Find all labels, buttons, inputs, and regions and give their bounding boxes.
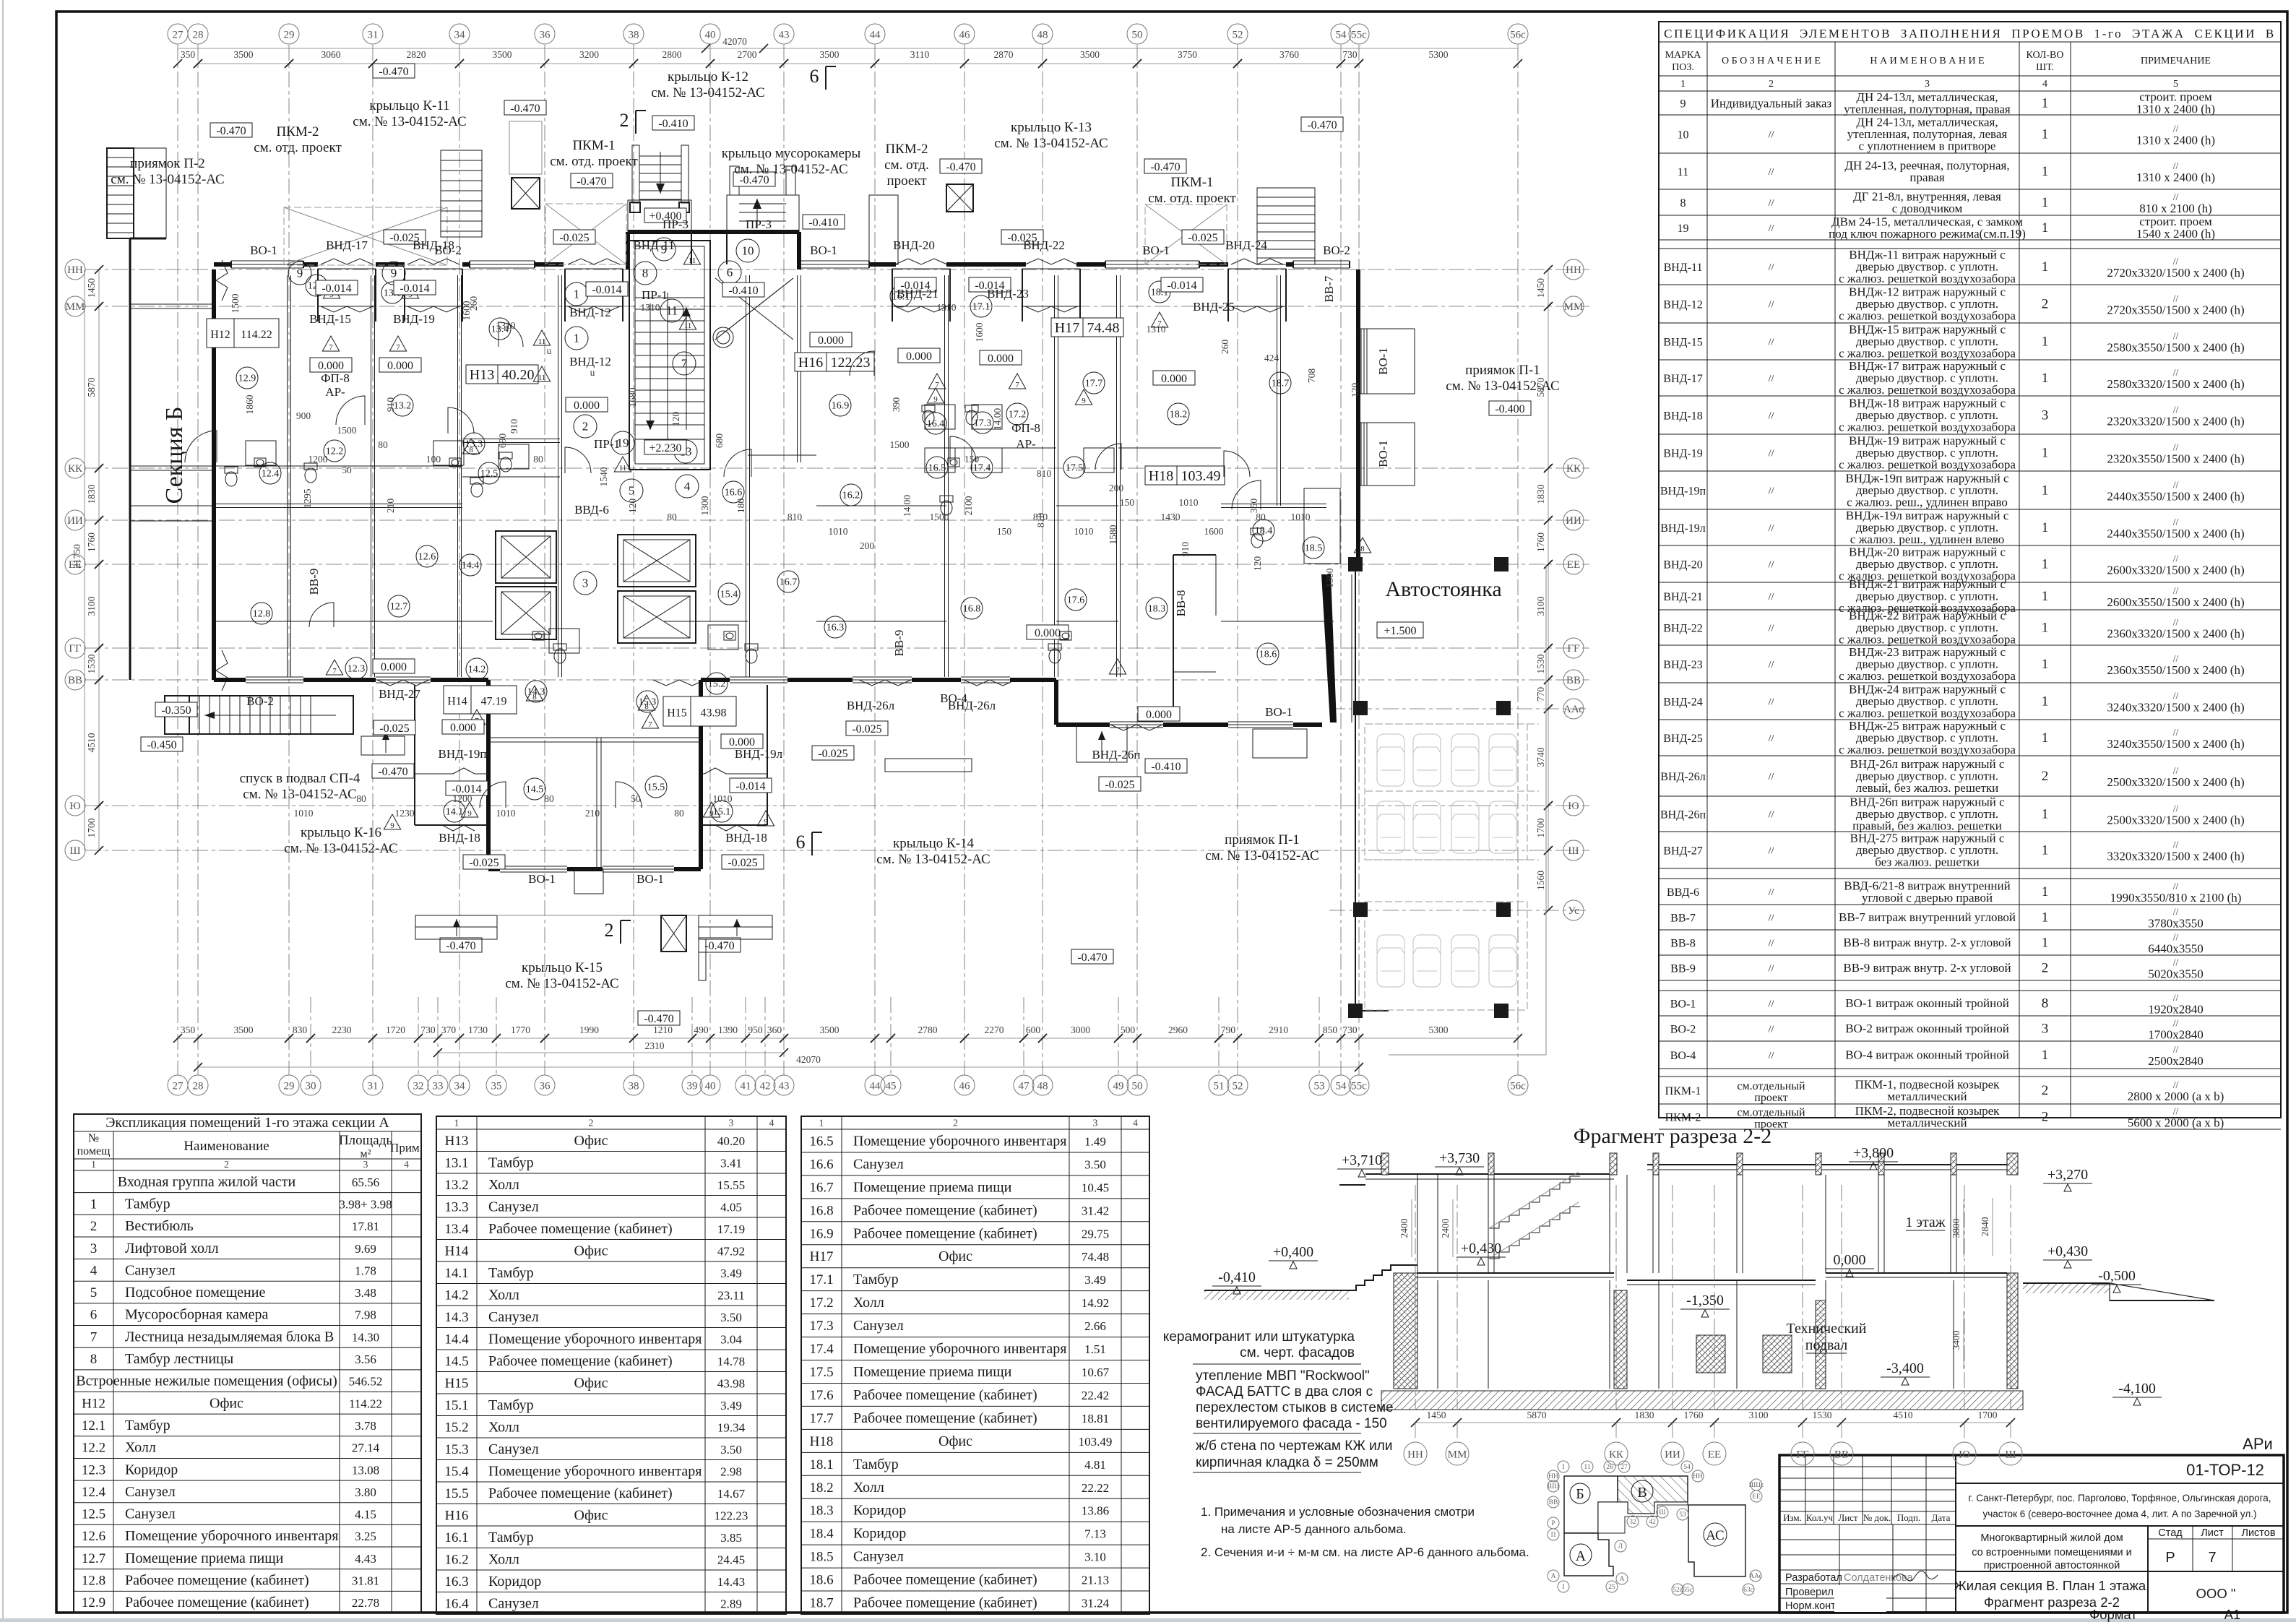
svg-text:0.000: 0.000 <box>574 400 600 412</box>
svg-text:13.1: 13.1 <box>444 1155 468 1170</box>
svg-text:ПР-1: ПР-1 <box>594 437 620 451</box>
svg-text:7.13: 7.13 <box>1084 1527 1106 1541</box>
svg-text:730: 730 <box>1342 1024 1358 1035</box>
svg-text:ПКМ-1: ПКМ-1 <box>1170 175 1213 190</box>
svg-text://: // <box>1769 624 1774 634</box>
svg-text:56с: 56с <box>1510 29 1526 40</box>
svg-text:3.80: 3.80 <box>355 1485 376 1499</box>
svg-text:2: 2 <box>2042 769 2049 784</box>
svg-text:-0.014: -0.014 <box>1167 280 1196 292</box>
svg-text:12.1: 12.1 <box>82 1418 105 1433</box>
notes <box>1201 1505 1529 1559</box>
svg-text://: // <box>2173 727 2179 738</box>
VND-27 stoop <box>361 731 405 755</box>
svg-text:16.4: 16.4 <box>927 419 945 430</box>
svg-text:-0.410: -0.410 <box>658 118 688 130</box>
svg-text:18.1: 18.1 <box>809 1457 833 1472</box>
svg-text:приямок П-2: приямок П-2 <box>130 156 205 171</box>
svg-text:52: 52 <box>1233 29 1243 40</box>
svg-text:9: 9 <box>764 818 768 827</box>
svg-text:13.4: 13.4 <box>444 1222 469 1237</box>
svg-text:74.48: 74.48 <box>1087 320 1120 336</box>
svg-text:1: 1 <box>2042 195 2049 210</box>
svg-text:ВО-1 витраж оконный тройной: ВО-1 витраж оконный тройной <box>1845 996 2009 1010</box>
svg-text:18.7: 18.7 <box>1272 379 1290 389</box>
svg-text://: // <box>2173 517 2179 527</box>
svg-text:16.5: 16.5 <box>928 463 946 474</box>
svg-text:3060: 3060 <box>321 49 341 60</box>
svg-text:19.34: 19.34 <box>717 1420 746 1434</box>
svg-text:2270: 2270 <box>985 1024 1004 1035</box>
svg-text:ВВ-9: ВВ-9 <box>1670 963 1696 975</box>
svg-text:2: 2 <box>90 1219 98 1234</box>
svg-text:8: 8 <box>532 693 537 702</box>
svg-text:14.5: 14.5 <box>444 1354 468 1369</box>
svg-text:1450: 1450 <box>86 278 97 298</box>
svg-text:3100: 3100 <box>1535 596 1546 616</box>
svg-text:114.22: 114.22 <box>241 329 272 341</box>
svg-text:-3,400: -3,400 <box>1886 1360 1924 1376</box>
svg-text:Рабочее помещение (кабинет): Рабочее помещение (кабинет) <box>488 1221 673 1237</box>
svg-text:-0.470: -0.470 <box>446 940 475 952</box>
svg-text:1700х2840: 1700х2840 <box>2148 1028 2204 1042</box>
svg-text:3400: 3400 <box>1951 1330 1961 1350</box>
svg-text:утепление МВП "Rockwool": утепление МВП "Rockwool" <box>1196 1368 1370 1384</box>
svg-text:Холл: Холл <box>488 1551 519 1567</box>
svg-text:ПКМ-2: ПКМ-2 <box>276 124 319 139</box>
svg-text:2400: 2400 <box>1440 1218 1451 1238</box>
svg-text:6: 6 <box>796 832 806 853</box>
svg-text:-0.470: -0.470 <box>1307 119 1337 131</box>
svg-text:ВНД-27: ВНД-27 <box>1663 845 1702 858</box>
svg-text:1500: 1500 <box>230 293 241 313</box>
svg-text:с доводчиком: с доводчиком <box>1892 202 1963 215</box>
svg-text:4: 4 <box>684 480 691 493</box>
svg-text:12.8: 12.8 <box>253 609 271 620</box>
svg-text:1.49: 1.49 <box>1084 1134 1106 1148</box>
svg-text:730: 730 <box>1342 49 1358 60</box>
svg-text:1010: 1010 <box>496 808 516 819</box>
svg-text:1: 1 <box>2042 446 2049 461</box>
svg-text:810: 810 <box>787 512 803 522</box>
svg-text:-0.025: -0.025 <box>1188 232 1217 244</box>
svg-text:Секция Б: Секция Б <box>161 407 188 504</box>
svg-text:Санузел: Санузел <box>125 1262 176 1278</box>
svg-text:ВНД-19л: ВНД-19л <box>1660 522 1705 535</box>
svg-text:2800: 2800 <box>663 49 682 60</box>
svg-text:см. отд.: см. отд. <box>884 158 929 173</box>
svg-text:Тамбур: Тамбур <box>125 1196 171 1212</box>
svg-text://: // <box>2173 293 2179 304</box>
svg-text:см. № 13-04152-АС: см. № 13-04152-АС <box>505 976 618 991</box>
svg-text:1: 1 <box>2042 483 2049 499</box>
svg-text:8: 8 <box>469 446 473 454</box>
svg-text:2820: 2820 <box>407 49 426 60</box>
svg-text://: // <box>1769 449 1774 460</box>
svg-text:0.000: 0.000 <box>381 661 407 673</box>
svg-text:левый, без жалюз. решетки: левый, без жалюз. решетки <box>1856 781 1999 795</box>
basement stair SP-4 <box>165 696 353 734</box>
svg-text:с жалюз. решеткой воздухозабор: с жалюз. решеткой воздухозабора <box>1839 669 2016 683</box>
svg-text:5870: 5870 <box>1527 1410 1547 1420</box>
wall labels <box>246 217 1390 886</box>
svg-text:10.45: 10.45 <box>1082 1181 1109 1194</box>
svg-text:600: 600 <box>1026 1024 1041 1035</box>
svg-text:г. Санкт-Петербург, пос. Парго: г. Санкт-Петербург, пос. Парголово, Торф… <box>1968 1493 2271 1504</box>
svg-text:2: 2 <box>953 1118 958 1129</box>
svg-text://: // <box>2173 957 2179 968</box>
svg-text:Тамбур: Тамбур <box>853 1272 899 1287</box>
svg-text://: // <box>1769 560 1774 571</box>
svg-text:3: 3 <box>363 1159 368 1170</box>
svg-text:1700: 1700 <box>86 818 97 837</box>
svg-text://: // <box>2173 367 2179 378</box>
svg-text:1010: 1010 <box>294 808 314 819</box>
svg-text:3200: 3200 <box>579 49 599 60</box>
svg-text:14.30: 14.30 <box>352 1330 379 1344</box>
svg-text://: // <box>1769 167 1774 178</box>
svg-text:14.4: 14.4 <box>462 561 480 571</box>
svg-text:ВНД-25: ВНД-25 <box>1663 733 1702 745</box>
svg-text:47.92: 47.92 <box>717 1244 745 1258</box>
svg-text://: // <box>1769 887 1774 898</box>
exterior walls main band <box>130 232 1415 728</box>
svg-text:13.3: 13.3 <box>444 1199 468 1215</box>
key plan <box>1548 1461 1764 1595</box>
svg-text:150: 150 <box>1120 497 1135 508</box>
left axis bubbles <box>65 259 85 860</box>
svg-text:5: 5 <box>2173 79 2178 90</box>
svg-text:Солдатенкова: Солдатенкова <box>1844 1572 1914 1584</box>
svg-text:54: 54 <box>1683 1464 1691 1471</box>
svg-text://: // <box>2173 1079 2179 1090</box>
scattered small dims <box>230 293 1360 819</box>
svg-text://: // <box>2173 993 2179 1004</box>
svg-text:2780: 2780 <box>918 1024 938 1035</box>
svg-text:17.1: 17.1 <box>972 302 991 313</box>
svg-text:1450: 1450 <box>1535 278 1546 298</box>
svg-text:1010: 1010 <box>1291 512 1311 522</box>
svg-text:15.4: 15.4 <box>720 590 738 600</box>
svg-text:ВНД-27: ВНД-27 <box>379 687 420 701</box>
svg-text://: // <box>2173 160 2179 171</box>
svg-text:5870: 5870 <box>86 377 97 397</box>
svg-text:-0.470: -0.470 <box>1150 161 1180 173</box>
svg-text:1: 1 <box>2042 96 2049 111</box>
svg-text:43.98: 43.98 <box>701 707 727 720</box>
svg-text:ВНД-11: ВНД-11 <box>1664 262 1703 274</box>
svg-text:1860: 1860 <box>244 394 255 414</box>
svg-text:40.20: 40.20 <box>502 367 535 383</box>
svg-text:13.2: 13.2 <box>444 1178 468 1193</box>
svg-text:16.4: 16.4 <box>444 1596 469 1611</box>
lower porches K-15 <box>415 725 1307 980</box>
svg-text:ВНД-19: ВНД-19 <box>393 312 435 326</box>
svg-text:1010: 1010 <box>713 793 733 804</box>
svg-text:Помещение уборочного инвентаря: Помещение уборочного инвентаря <box>488 1331 702 1347</box>
garbage chamber interior <box>713 278 793 348</box>
svg-text:18.4: 18.4 <box>809 1527 834 1542</box>
svg-text:4: 4 <box>90 1263 98 1278</box>
svg-text:1720: 1720 <box>386 1024 405 1035</box>
svg-text:см. № 13-04152-АС: см. № 13-04152-АС <box>994 136 1108 151</box>
svg-text://: // <box>1769 810 1774 821</box>
svg-text:-0.470: -0.470 <box>379 66 408 78</box>
svg-text:2: 2 <box>620 110 629 131</box>
svg-text:9: 9 <box>709 809 714 818</box>
svg-text:ШЦс: ШЦс <box>1749 1482 1764 1489</box>
svg-text:2960: 2960 <box>1168 1024 1188 1035</box>
svg-text:ПКМ-1: ПКМ-1 <box>572 138 615 153</box>
svg-text:1: 1 <box>2042 259 2049 275</box>
svg-text:1830: 1830 <box>86 484 97 504</box>
svg-text:3000: 3000 <box>1071 1024 1090 1035</box>
svg-text:11: 11 <box>538 337 546 346</box>
svg-text:1: 1 <box>2042 335 2049 350</box>
svg-text:Н12: Н12 <box>210 329 230 341</box>
svg-text:9: 9 <box>467 809 472 818</box>
svg-text:14.1: 14.1 <box>444 1266 468 1281</box>
svg-text:Кол.уч: Кол.уч <box>1806 1512 1834 1523</box>
svg-text:6: 6 <box>727 266 733 280</box>
svg-text:50: 50 <box>1132 29 1143 40</box>
svg-text:участок 6 (северо-восточнее до: участок 6 (северо-восточнее дома 4, лит.… <box>1982 1509 2256 1519</box>
svg-text:120: 120 <box>670 412 681 427</box>
svg-text:3500: 3500 <box>820 1024 840 1035</box>
svg-text:2: 2 <box>1769 79 1774 90</box>
svg-text:ВВ-8 витраж внутр. 2-х углово: ВВ-8 витраж внутр. 2-х угловой <box>1843 936 2011 949</box>
svg-text:9: 9 <box>391 267 397 280</box>
svg-text:НН: НН <box>1693 1473 1703 1480</box>
svg-text:3: 3 <box>1093 1118 1098 1129</box>
svg-text:Изм.: Изм. <box>1783 1512 1802 1523</box>
svg-text:1990х3550/810 х 2100 (h): 1990х3550/810 х 2100 (h) <box>2110 891 2242 905</box>
svg-text:1: 1 <box>90 1196 98 1212</box>
svg-text:14.5: 14.5 <box>526 785 544 795</box>
svg-text:ВВ-7: ВВ-7 <box>1322 275 1336 302</box>
svg-text:36: 36 <box>540 1080 551 1092</box>
svg-text:с жалюз. решеткой воздухозабор: с жалюз. решеткой воздухозабора <box>1839 707 2016 720</box>
svg-text:Тамбур: Тамбур <box>488 1265 534 1281</box>
svg-text:2.98: 2.98 <box>720 1464 742 1478</box>
svg-text:4.15: 4.15 <box>355 1508 376 1522</box>
svg-text:Ю: Ю <box>69 801 80 812</box>
svg-text:Офис: Офис <box>574 1133 608 1149</box>
svg-text:18.2: 18.2 <box>1170 410 1188 420</box>
svg-text:17.19: 17.19 <box>717 1222 745 1236</box>
svg-text:-0.470: -0.470 <box>378 766 407 778</box>
svg-text:1730: 1730 <box>468 1024 488 1035</box>
svg-text:Л: Л <box>1618 1543 1623 1550</box>
svg-text:16.6: 16.6 <box>725 488 743 499</box>
format label <box>2089 1607 2240 1622</box>
svg-text:3: 3 <box>582 577 589 590</box>
svg-text:42: 42 <box>760 1080 771 1092</box>
room label boxes <box>207 318 1225 726</box>
svg-text://: // <box>2173 840 2179 850</box>
svg-text:27.14: 27.14 <box>352 1441 380 1455</box>
svg-text:приямок П-1: приямок П-1 <box>1225 832 1300 847</box>
svg-text:угловой с дверью правой: угловой с дверью правой <box>1862 891 1993 905</box>
svg-text:ВНД-18: ВНД-18 <box>1663 410 1702 423</box>
svg-text:3.98+ 3.98: 3.98+ 3.98 <box>339 1197 392 1211</box>
svg-text:3110: 3110 <box>910 49 930 60</box>
svg-text:2.89: 2.89 <box>720 1597 742 1610</box>
warning triangles <box>322 249 1371 830</box>
svg-text:1: 1 <box>2042 910 2049 926</box>
bottom wall entrances <box>377 680 1162 730</box>
svg-text:-0.014: -0.014 <box>321 282 351 295</box>
svg-text:810: 810 <box>1035 513 1046 528</box>
svg-text:Помещение уборочного инвентаря: Помещение уборочного инвентаря <box>488 1463 702 1479</box>
svg-text:Помещение уборочного инвентаря: Помещение уборочного инвентаря <box>125 1528 338 1544</box>
svg-text:1310: 1310 <box>1147 324 1166 335</box>
svg-text:Подп.: Подп. <box>1897 1512 1920 1523</box>
svg-text:АР-: АР- <box>1016 437 1036 451</box>
svg-text:31: 31 <box>368 1080 379 1092</box>
svg-text:38: 38 <box>629 1080 639 1092</box>
svg-text:-0.025: -0.025 <box>1105 779 1134 791</box>
svg-text:17.3: 17.3 <box>809 1319 833 1334</box>
svg-text:12.6: 12.6 <box>82 1529 105 1544</box>
svg-text:I: I <box>1562 1584 1564 1591</box>
svg-text://: // <box>1769 697 1774 708</box>
svg-text:-0.025: -0.025 <box>559 232 589 244</box>
svg-text://: // <box>2173 691 2179 702</box>
svg-text:1: 1 <box>2042 520 2049 535</box>
svg-text:1: 1 <box>2042 220 2049 236</box>
svg-text:СПЕЦИФИКАЦИЯ ЭЛЕМЕНТОВ ЗАПОЛНЕ: СПЕЦИФИКАЦИЯ ЭЛЕМЕНТОВ ЗАПОЛНЕНИЯ ПРОЕМО… <box>1664 27 2276 40</box>
svg-text:1: 1 <box>2042 1048 2049 1063</box>
svg-text:1760: 1760 <box>1535 532 1546 552</box>
svg-text:27: 27 <box>173 29 184 40</box>
svg-text:ВНД-24: ВНД-24 <box>1663 696 1702 709</box>
svg-text:210: 210 <box>585 808 600 819</box>
svg-text:Помещение приема пищи: Помещение приема пищи <box>125 1550 284 1566</box>
svg-text:Коридор: Коридор <box>853 1503 906 1519</box>
svg-text:1700: 1700 <box>1535 818 1546 837</box>
svg-text:Н18: Н18 <box>810 1434 834 1449</box>
svg-text:0.000: 0.000 <box>1146 709 1172 721</box>
svg-text:3: 3 <box>1925 79 1930 90</box>
svg-text:22.78: 22.78 <box>352 1596 379 1610</box>
svg-text:ААс: ААс <box>1563 704 1584 715</box>
svg-text:51: 51 <box>1214 1080 1225 1092</box>
svg-text:см. № 13-04152-АС: см. № 13-04152-АС <box>876 852 990 867</box>
svg-text:керамогранит или штукатурка: керамогранит или штукатурка <box>1163 1329 1355 1345</box>
svg-text:1: 1 <box>2042 589 2049 604</box>
svg-text:18.6: 18.6 <box>1259 650 1277 660</box>
svg-text:1540 х 2400 (h): 1540 х 2400 (h) <box>2136 227 2215 241</box>
svg-text:правая: правая <box>1909 171 1944 184</box>
svg-text:3100: 3100 <box>1749 1410 1769 1420</box>
svg-text:80: 80 <box>544 793 554 804</box>
svg-text:900: 900 <box>296 410 311 421</box>
svg-text:ВВ-8: ВВ-8 <box>1670 938 1696 950</box>
svg-text:НН: НН <box>1548 1473 1558 1480</box>
svg-text:1.51: 1.51 <box>1084 1342 1106 1356</box>
svg-text:+1.500: +1.500 <box>1384 625 1416 637</box>
svg-text:-0.025: -0.025 <box>379 722 409 735</box>
svg-text:12.5: 12.5 <box>82 1507 105 1522</box>
svg-text:16.5: 16.5 <box>809 1134 833 1149</box>
svg-text:23.11: 23.11 <box>717 1288 745 1302</box>
svg-text:5300: 5300 <box>1429 49 1449 60</box>
svg-text:0.000: 0.000 <box>450 722 476 734</box>
svg-text:10.67: 10.67 <box>1082 1366 1110 1379</box>
svg-text:-0.025: -0.025 <box>469 857 499 869</box>
svg-text:АС: АС <box>1706 1528 1724 1543</box>
svg-text://: // <box>1769 262 1774 273</box>
svg-text:15.5: 15.5 <box>444 1486 468 1501</box>
svg-text:ВНД-17: ВНД-17 <box>1663 373 1702 385</box>
svg-text:7: 7 <box>332 667 337 676</box>
svg-text://: // <box>2173 881 2179 892</box>
svg-text:Вестибюль: Вестибюль <box>125 1218 194 1234</box>
svg-text:ВО-4: ВО-4 <box>940 691 967 705</box>
svg-text:проект: проект <box>1754 1092 1787 1104</box>
svg-text:Тамбур: Тамбур <box>488 1530 534 1545</box>
section cut marks <box>605 66 837 944</box>
title block <box>1779 1455 2284 1613</box>
svg-text:О Б О З Н А Ч Е Н И Е: О Б О З Н А Ч Е Н И Е <box>1722 56 1821 66</box>
svg-text:15.55: 15.55 <box>717 1178 745 1192</box>
svg-text:3.49: 3.49 <box>1084 1273 1106 1287</box>
svg-text:ж/б стена по чертежам КЖ или: ж/б стена по чертежам КЖ или <box>1196 1438 1392 1454</box>
svg-text:1: 1 <box>2042 694 2049 709</box>
svg-text:150: 150 <box>997 526 1012 537</box>
svg-text://: // <box>2173 1018 2179 1029</box>
svg-text://: // <box>1769 130 1774 141</box>
svg-text:ВО-2 витраж оконный тройной: ВО-2 витраж оконный тройной <box>1845 1022 2009 1035</box>
svg-text:80: 80 <box>674 808 684 819</box>
svg-text:1430: 1430 <box>1161 512 1181 522</box>
svg-text:с жалюз. решеткой воздухозабор: с жалюз. решеткой воздухозабора <box>1839 347 2016 361</box>
svg-text:Лифтовой холл: Лифтовой холл <box>125 1241 219 1256</box>
svg-text:3.48: 3.48 <box>355 1286 376 1300</box>
svg-text://: // <box>1769 999 1774 1010</box>
svg-text:12.4: 12.4 <box>82 1485 106 1500</box>
svg-text:8: 8 <box>2042 996 2049 1011</box>
svg-text:18.7: 18.7 <box>809 1596 833 1611</box>
svg-text:40: 40 <box>705 1080 716 1092</box>
svg-text:80: 80 <box>533 454 543 465</box>
svg-text:7: 7 <box>648 720 652 729</box>
svg-text:-0.014: -0.014 <box>592 284 621 296</box>
svg-text:I: I <box>1562 1464 1564 1471</box>
svg-text:4510: 4510 <box>86 733 97 752</box>
svg-text:260: 260 <box>468 296 479 311</box>
svg-text:910: 910 <box>1180 542 1191 557</box>
svg-text:1: 1 <box>574 288 580 301</box>
svg-text:2: 2 <box>582 420 589 433</box>
svg-text:ВВ-9: ВВ-9 <box>307 569 321 595</box>
svg-text://: // <box>2173 1106 2179 1117</box>
svg-text:ВО-2: ВО-2 <box>1323 243 1350 257</box>
svg-text:17.7: 17.7 <box>1085 379 1103 389</box>
svg-text:Санузел: Санузел <box>853 1156 904 1172</box>
svg-text:200: 200 <box>1109 483 1124 493</box>
svg-text:80: 80 <box>667 512 677 522</box>
svg-text:см. отд. проект: см. отд. проект <box>254 140 342 155</box>
svg-text:2840: 2840 <box>1980 1217 1990 1236</box>
svg-text:КОЛ-ВО: КОЛ-ВО <box>2026 50 2063 61</box>
svg-text:1: 1 <box>1680 79 1686 90</box>
svg-text:13.2: 13.2 <box>394 401 412 412</box>
svg-text:Офис: Офис <box>574 1375 608 1391</box>
svg-text:2500х2840: 2500х2840 <box>2148 1054 2204 1068</box>
svg-text:Тамбур: Тамбур <box>488 1155 534 1170</box>
